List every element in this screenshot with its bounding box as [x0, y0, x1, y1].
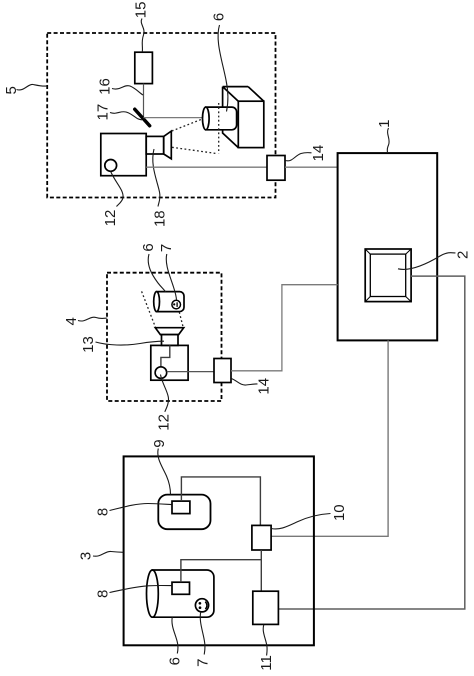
control unit 1 [338, 153, 438, 340]
svg-text:7: 7 [158, 244, 175, 252]
camera 12 (middle unit) [151, 345, 188, 380]
leader for 2 [398, 253, 456, 270]
leader for 7 (bottom) [200, 612, 205, 655]
leader for 11 [263, 625, 267, 656]
leader for 8 (upper) [110, 504, 172, 511]
svg-text:8: 8 [95, 590, 112, 598]
dashed enclosure box 5 (projection unit) [47, 33, 275, 198]
dotted beam vertical [218, 103, 220, 154]
svg-text:17: 17 [94, 104, 111, 121]
wire camera 12 to interface 14 [146, 166, 267, 168]
leader for 17 [110, 112, 142, 120]
leader for 9 [158, 449, 171, 495]
svg-text:15: 15 [133, 2, 150, 19]
container cylinder 6 (bottom) [152, 570, 214, 617]
camera 12 (top unit) [101, 134, 146, 176]
leader for 18 [153, 149, 160, 207]
leader for 5 [17, 84, 48, 90]
leader for 6 (top) [218, 25, 228, 112]
svg-text:10: 10 [331, 504, 348, 521]
svg-text:14: 14 [256, 378, 273, 395]
leader for 4 [78, 317, 107, 321]
dotted cone left [142, 291, 156, 327]
lens funnel 13 [155, 328, 183, 335]
wire chip 8 (lower) to bus [181, 560, 261, 583]
mirror 17 [135, 109, 150, 126]
leader for 7 (middle) [166, 254, 176, 300]
camera indicator circle [105, 160, 117, 172]
leader for 13 [96, 341, 165, 345]
svg-text:6: 6 [140, 243, 157, 251]
wire: optical axis from mirror to projector 6 [144, 117, 203, 119]
leader for 12 (top) [111, 172, 123, 207]
svg-text:9: 9 [151, 439, 168, 447]
svg-text:5: 5 [3, 86, 20, 94]
illuminator 6 (middle cylinder) [157, 292, 184, 312]
memory 9 (rounded module) [158, 495, 210, 530]
chip 8 (upper) [172, 501, 190, 513]
leader for 6 (bottom) [172, 617, 178, 654]
svg-text:12: 12 [102, 210, 119, 227]
interface 14 (middle) [214, 359, 231, 383]
interface 14 (top) [267, 156, 285, 181]
wire unit 10 to unit 11 [260, 550, 262, 591]
component 15 (light source box) [135, 52, 153, 83]
dashed enclosure box 4 (scanner unit) [107, 273, 222, 401]
svg-text:8: 8 [95, 508, 112, 516]
wire display 2 to unit 11 [278, 276, 464, 609]
leader for 14 (top) [286, 153, 312, 161]
dotted cone right [179, 312, 183, 327]
svg-text:3: 3 [78, 552, 95, 560]
leader for 15 [141, 19, 144, 53]
leader for 6 (middle) [148, 254, 165, 292]
svg-text:16: 16 [97, 78, 114, 95]
camera circle (middle) [155, 367, 167, 379]
svg-text:11: 11 [258, 655, 275, 671]
leader for 8 (lower) [110, 585, 172, 592]
line 16 (beam path from 15) [143, 84, 145, 118]
internal connection step [161, 345, 170, 367]
svg-text:4: 4 [63, 317, 80, 325]
svg-text:18: 18 [152, 210, 169, 227]
wire interface 14 to control unit 1 [285, 166, 338, 168]
display 2 (framed screen) [365, 249, 411, 302]
leader for 10 [271, 514, 330, 529]
svg-text:14: 14 [310, 145, 327, 162]
svg-text:12: 12 [155, 414, 172, 431]
unit 10 [252, 525, 271, 550]
box 3 (processing unit) [124, 456, 314, 645]
chip 8 (lower) [172, 582, 190, 594]
svg-text:13: 13 [80, 336, 97, 353]
projector unit 6 (3D box, top) [203, 87, 264, 148]
leader for 16 [112, 86, 143, 95]
leader for 12 (middle) [161, 375, 169, 412]
lamp circle 7 (bottom) [195, 599, 208, 612]
svg-text:7: 7 [195, 659, 212, 667]
wire interface 14 (middle) to control unit 1 [231, 285, 338, 371]
leader for 1 [387, 128, 389, 153]
svg-text:6: 6 [167, 657, 184, 665]
unit 11 [253, 591, 279, 624]
wire chip 8 to unit 10 [181, 477, 260, 526]
dotted sight line upper [172, 119, 203, 131]
lamp circle 7 (middle) [172, 300, 181, 309]
projector lens cylinder [206, 107, 237, 130]
wire unit 10 to control unit 1 [271, 340, 388, 536]
wire camera to interface 14 (middle) [167, 371, 214, 373]
leader for 3 [93, 551, 123, 556]
svg-text:6: 6 [211, 13, 228, 21]
dotted sight line lower [172, 147, 217, 153]
svg-text:2: 2 [454, 251, 471, 259]
svg-text:1: 1 [376, 120, 393, 128]
lens 18 on camera 12 [146, 136, 164, 154]
leader for 14 (middle) [231, 379, 257, 386]
